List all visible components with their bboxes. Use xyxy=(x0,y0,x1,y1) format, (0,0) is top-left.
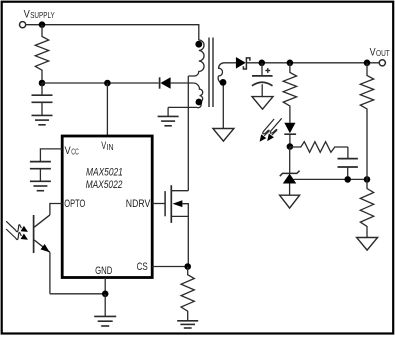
light arrow (photo receive 2) xyxy=(6,229,28,240)
ground earth (R6 sense) xyxy=(177,321,198,328)
wire emitter to GND node xyxy=(50,293,105,295)
node F LED cathode xyxy=(287,143,294,150)
capacitor C2 output (polarized) xyxy=(252,63,273,97)
light arrow (LED emit 1) xyxy=(260,119,275,142)
wire R3 to C3 xyxy=(347,147,349,159)
svg-text:MAX5022: MAX5022 xyxy=(86,179,123,191)
resistor R3 feedback xyxy=(290,142,348,153)
ground triangle (secondary) xyxy=(213,129,234,142)
svg-text:IN: IN xyxy=(107,143,114,152)
transformer core xyxy=(209,38,213,108)
svg-text:CS: CS xyxy=(137,261,148,273)
wire input node to diode D1 xyxy=(42,82,159,84)
resistor R6 current sense xyxy=(181,267,194,321)
svg-text:SUPPLY: SUPPLY xyxy=(30,10,55,20)
resistor R2 LED series xyxy=(283,63,296,123)
resistor R5 divider lower xyxy=(360,179,373,237)
ground earth (bias winding) xyxy=(158,107,179,125)
node E divider top xyxy=(287,60,294,67)
capacitor C1 input bypass xyxy=(32,83,53,115)
wire CS pin xyxy=(152,266,188,268)
wire VIN feed xyxy=(106,83,108,136)
wire VSUPPLY top rail xyxy=(26,25,199,41)
svg-text:GND: GND xyxy=(95,265,112,277)
transformer secondary winding xyxy=(218,63,236,129)
node D output cap xyxy=(259,60,266,67)
ground triangle (C2 output) xyxy=(252,97,273,110)
node H anode rail xyxy=(364,176,371,183)
ground earth (C4 VCC) xyxy=(30,181,51,190)
node C VIN tap xyxy=(104,80,111,87)
node A VSUPPLY tap xyxy=(39,21,46,28)
svg-text:OUT: OUT xyxy=(376,48,390,58)
ground triangle (zener) xyxy=(280,195,300,208)
svg-text:NDRV: NDRV xyxy=(126,198,151,210)
wire GND pin xyxy=(104,278,106,294)
transistor Q1 NMOS power switch xyxy=(152,185,188,266)
wire zener anode rail xyxy=(294,178,368,180)
wire D1 anode to bias winding xyxy=(171,82,194,84)
capacitor C3 feedback xyxy=(338,159,358,180)
ground triangle (divider) xyxy=(357,238,378,251)
polarity dot (primary) xyxy=(195,41,202,48)
capacitor C4 VCC bypass xyxy=(30,149,62,181)
light arrow (LED emit 2) xyxy=(267,118,282,141)
node I VOUT divider xyxy=(364,60,371,67)
svg-text:MAX5021: MAX5021 xyxy=(86,166,123,178)
wire primary to Q1 drain xyxy=(187,76,189,191)
node B input xyxy=(39,80,46,87)
LED D3 optocoupler emitter xyxy=(284,123,296,147)
svg-text:OPTO: OPTO xyxy=(64,198,85,210)
svg-text:CC: CC xyxy=(71,148,79,157)
zener diode Z1 shunt regulator xyxy=(280,147,300,196)
light arrow (photo receive 1) xyxy=(6,221,28,232)
terminal VOUT xyxy=(370,47,390,66)
ground earth (IC GND) xyxy=(94,294,116,326)
transistor Q2 optocoupler phototransistor xyxy=(34,204,62,294)
diode D2 schottky output rectifier xyxy=(236,57,250,69)
node J GND xyxy=(102,291,109,298)
terminal VSUPPLY xyxy=(20,9,56,28)
IC U1 MAX5021/MAX5022 controller xyxy=(62,136,152,278)
diode D1 bias rectifier xyxy=(160,77,171,89)
polarity dot (bias) xyxy=(196,99,203,106)
polarity dot (secondary) xyxy=(220,79,227,86)
ground earth (C1) xyxy=(32,115,53,124)
node K CS xyxy=(184,263,191,270)
transformer primary winding xyxy=(188,40,204,76)
resistor R1 startup xyxy=(35,25,48,83)
node G C3 bottom xyxy=(344,176,351,183)
resistor R4 divider upper xyxy=(360,63,373,180)
transformer bias winding xyxy=(168,83,203,108)
wire output rail xyxy=(246,62,379,64)
